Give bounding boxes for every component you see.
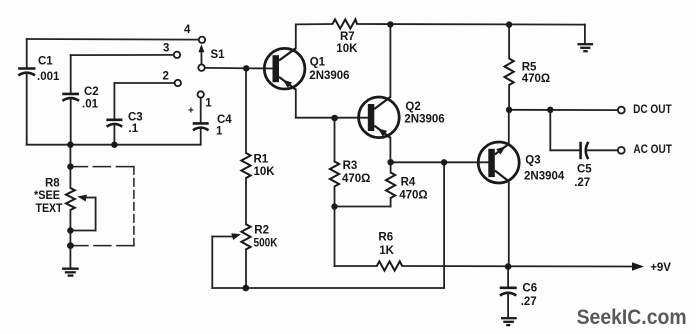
svg-text:R5: R5 (522, 62, 537, 74)
svg-text:500K: 500K (254, 237, 279, 249)
svg-text:4: 4 (184, 24, 191, 36)
svg-text:+9V: +9V (650, 262, 671, 274)
svg-text:2N3906: 2N3906 (309, 70, 349, 82)
svg-text:Q1: Q1 (310, 56, 326, 68)
svg-text:1K: 1K (379, 245, 394, 257)
svg-text:SeekIC.com: SeekIC.com (577, 305, 687, 329)
svg-text:*SEE: *SEE (34, 190, 60, 202)
svg-text:R4: R4 (401, 177, 416, 189)
svg-text:C4: C4 (217, 114, 232, 126)
svg-text:C6: C6 (522, 282, 537, 294)
svg-text:R8: R8 (45, 177, 60, 189)
svg-text:470Ω: 470Ω (522, 73, 550, 85)
svg-text:Q2: Q2 (405, 101, 420, 113)
svg-text:.01: .01 (82, 99, 99, 111)
svg-text:C2: C2 (84, 86, 99, 98)
svg-text:TEXT: TEXT (36, 203, 63, 215)
svg-text:R3: R3 (343, 160, 358, 172)
svg-text:.27: .27 (574, 177, 590, 189)
svg-text:470Ω: 470Ω (399, 189, 427, 201)
svg-text:.27: .27 (521, 296, 537, 308)
svg-text:C3: C3 (128, 112, 143, 124)
svg-text:C5: C5 (577, 163, 592, 175)
svg-text:DC OUT: DC OUT (633, 104, 672, 116)
svg-text:AC OUT: AC OUT (633, 144, 672, 156)
svg-text:.1: .1 (129, 123, 139, 135)
svg-text:1: 1 (205, 97, 212, 109)
svg-text:3: 3 (163, 43, 169, 55)
svg-text:10K: 10K (336, 43, 358, 55)
svg-text:R7: R7 (340, 31, 355, 43)
svg-text:1: 1 (216, 126, 223, 138)
svg-text:2N3906: 2N3906 (404, 113, 444, 125)
svg-text:C1: C1 (38, 56, 53, 68)
svg-text:470Ω: 470Ω (342, 173, 370, 185)
svg-text:R1: R1 (254, 154, 269, 166)
svg-text:10K: 10K (254, 166, 276, 178)
svg-text:S1: S1 (211, 49, 226, 61)
svg-text:+: + (188, 106, 194, 117)
svg-text:2: 2 (163, 70, 169, 82)
svg-text:2N3904: 2N3904 (524, 171, 565, 183)
svg-text:R6: R6 (378, 232, 393, 244)
svg-text:R2: R2 (254, 225, 269, 237)
svg-text:.001: .001 (37, 71, 60, 83)
svg-text:Q3: Q3 (525, 154, 540, 166)
